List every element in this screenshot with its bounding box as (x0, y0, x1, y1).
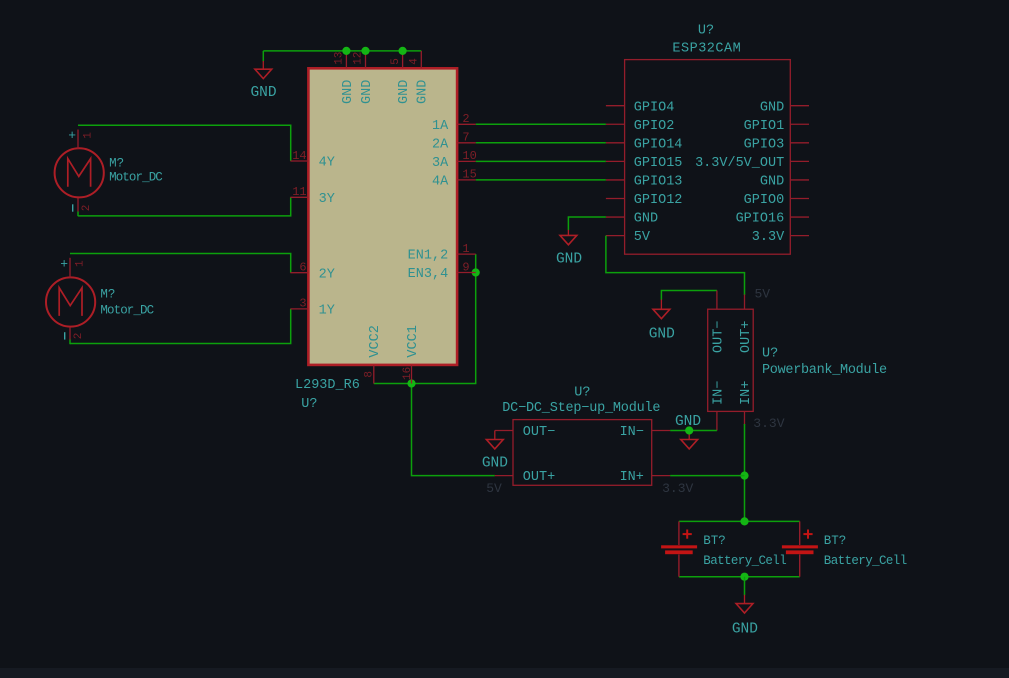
junction IN- / GND (685, 426, 693, 434)
svg-text:4A: 4A (432, 175, 449, 190)
pin 11 (3Y) stub (290, 196, 308, 198)
pin name - (M2) (64, 332, 66, 339)
wire motor M1 + to pin 4Y (78, 125, 291, 161)
pin 16 (VCC1) stub (411, 365, 413, 384)
svg-text:GPIO13: GPIO13 (634, 175, 683, 190)
module U? Powerbank_Module body (708, 309, 754, 411)
ESP32 left pin GPIO12 stub (606, 198, 625, 200)
motor M1 pin 2 (-) line (77, 198, 79, 212)
junction battery bottom (740, 573, 748, 581)
battery BT? (right) Battery_Cell (782, 521, 818, 576)
svg-text:+: + (60, 257, 68, 272)
svg-text:7: 7 (462, 131, 469, 145)
svg-text:IN+: IN+ (620, 470, 644, 485)
wire GND bus to L293D top pins (263, 50, 421, 52)
svg-text:GND: GND (360, 80, 375, 104)
svg-text:1A: 1A (432, 119, 449, 134)
ground (DC-DC OUT-) (486, 440, 503, 449)
wire L293D to ESP32 at y=179.9 (476, 179, 606, 181)
DC-DC pin OUT- stub (495, 430, 513, 432)
wire powerbank IN+ to battery bus (744, 424, 746, 521)
ground (powerbank OUT-) (653, 309, 670, 318)
svg-text:3.3V/5V_OUT: 3.3V/5V_OUT (695, 156, 784, 171)
wire motor M2 + to pin 2Y (70, 254, 291, 273)
pin 4 (GND) stub (420, 51, 422, 68)
svg-text:2: 2 (81, 205, 93, 212)
wire L293D to ESP32 at y=142.8 (476, 142, 606, 144)
wire to top-left ground (262, 51, 264, 62)
svg-text:BT?: BT? (703, 534, 726, 548)
svg-text:BT?: BT? (824, 534, 847, 548)
svg-text:EN3,4: EN3,4 (408, 267, 449, 282)
svg-text:5V: 5V (634, 230, 651, 245)
svg-text:U?: U? (762, 347, 778, 362)
junction battery top (740, 517, 748, 525)
svg-text:VCC1: VCC1 (406, 325, 421, 357)
svg-text:L293D_R6: L293D_R6 (295, 378, 360, 393)
DC-DC pin OUT+ stub (495, 475, 513, 477)
pin 13 (GND) stub (345, 51, 347, 68)
svg-text:14: 14 (292, 149, 306, 163)
svg-text:OUT−: OUT− (523, 425, 555, 440)
svg-text:EN1,2: EN1,2 (408, 249, 449, 264)
svg-text:5V: 5V (755, 286, 771, 301)
pin 15 (4A) stub (457, 179, 476, 181)
powerbank pin IN- stub (716, 412, 718, 431)
ESP32 right pin GND stub (790, 179, 809, 181)
junction on GND bus (342, 47, 350, 55)
wire battery bottom bus (679, 576, 800, 578)
pin 12 (GND) stub (365, 51, 367, 68)
wire battery bus to ground (744, 577, 746, 596)
svg-text:GPIO1: GPIO1 (744, 119, 785, 134)
svg-text:GND: GND (760, 175, 784, 190)
ESP32 right pin GPIO16 stub (790, 216, 809, 218)
svg-text:M?: M? (109, 156, 124, 170)
svg-text:OUT−: OUT− (712, 321, 727, 353)
svg-text:GPIO3: GPIO3 (744, 137, 785, 152)
wire powerbank OUT- to ground (661, 291, 717, 301)
svg-text:GND: GND (482, 456, 508, 472)
svg-text:GND: GND (760, 100, 784, 115)
ground pin stub (262, 61, 264, 69)
junction EN3,4 (472, 268, 480, 276)
wire ESP32 5V to powerbank OUT+ (606, 236, 745, 295)
svg-text:1: 1 (462, 242, 469, 256)
module U? DC-DC_Step-up_Module body (513, 420, 652, 486)
svg-text:GND: GND (556, 252, 582, 268)
pin 6 (2Y) stub (290, 272, 308, 274)
svg-text:GPIO0: GPIO0 (744, 193, 785, 208)
svg-text:4Y: 4Y (319, 156, 335, 171)
powerbank pin OUT- stub (716, 291, 718, 310)
DC-DC pin IN+ stub (652, 475, 671, 477)
svg-text:Powerbank_Module: Powerbank_Module (762, 363, 887, 378)
wire battery top bus (679, 520, 800, 522)
pin 8 (VCC2) stub (373, 365, 375, 384)
svg-text:GND: GND (634, 212, 658, 227)
svg-text:VCC2: VCC2 (368, 325, 383, 357)
junction IN+ / 3.3V (740, 472, 748, 480)
motor M2 pin 1 (+) line (69, 258, 71, 278)
svg-text:3A: 3A (432, 156, 449, 171)
svg-text:IN+: IN+ (739, 381, 754, 405)
svg-text:4: 4 (409, 58, 421, 65)
wire motor M2 - to pin 1Y (70, 309, 291, 344)
ESP32 left pin GPIO4 stub (606, 105, 625, 107)
svg-text:GND: GND (732, 622, 758, 638)
svg-text:1Y: 1Y (319, 304, 335, 319)
svg-text:U?: U? (301, 397, 317, 412)
svg-text:IN−: IN− (712, 381, 727, 405)
ground (IN- net) (681, 440, 698, 449)
svg-text:5V: 5V (486, 481, 502, 496)
ground pin stub (OUT-) (660, 300, 662, 310)
wire ESP32 GND pin to ground (568, 217, 606, 230)
svg-text:U?: U? (698, 24, 714, 39)
ESP32 right pin GPIO1 stub (790, 123, 809, 125)
svg-text:2: 2 (73, 333, 85, 340)
svg-text:OUT+: OUT+ (739, 321, 754, 353)
svg-text:Battery_Cell: Battery_Cell (703, 554, 786, 568)
svg-text:11: 11 (292, 185, 306, 199)
svg-text:GPIO2: GPIO2 (634, 119, 675, 134)
pin 5 (GND) stub (402, 51, 404, 68)
svg-text:+: + (68, 128, 76, 143)
svg-text:2: 2 (462, 112, 469, 126)
pin 9 (EN3,4) stub (457, 272, 476, 274)
pin 14 (4Y) stub (290, 160, 308, 162)
junction VCC1 (407, 379, 415, 387)
svg-text:GND: GND (649, 327, 675, 343)
svg-text:9: 9 (462, 260, 469, 274)
motor M2 pin 2 (-) line (69, 327, 71, 340)
svg-text:GPIO4: GPIO4 (634, 100, 675, 115)
ground pin stub (DC-DC OUT-) (494, 431, 496, 440)
ESP32 right pin GND stub (790, 105, 809, 107)
svg-text:GND: GND (416, 80, 431, 104)
svg-text:10: 10 (462, 149, 476, 163)
junction on GND bus (361, 47, 369, 55)
pin 3 (1Y) stub (290, 308, 308, 310)
wire DC-DC IN- to powerbank IN- (670, 430, 717, 432)
svg-text:Motor_DC: Motor_DC (100, 303, 153, 317)
ESP32 left pin GPIO14 stub (606, 142, 625, 144)
pin 7 (2A) stub (457, 142, 476, 144)
motor M2 Motor_DC (46, 277, 95, 326)
ground (battery) (736, 604, 753, 613)
ESP32 left pin 5V stub (606, 235, 625, 237)
svg-text:OUT+: OUT+ (523, 470, 555, 485)
ESP32 left pin GPIO15 stub (606, 160, 625, 162)
svg-text:GND: GND (675, 414, 701, 430)
svg-text:16: 16 (402, 367, 414, 380)
svg-text:GND: GND (397, 80, 412, 104)
svg-text:1: 1 (82, 132, 94, 139)
svg-text:15: 15 (462, 168, 476, 182)
svg-text:3Y: 3Y (319, 192, 335, 207)
pin name - (M1) (72, 204, 74, 211)
battery BT? (left) Battery_Cell (661, 521, 697, 576)
ESP32 right pin GPIO0 stub (790, 198, 809, 200)
svg-text:3.3V: 3.3V (662, 481, 693, 496)
ground pin stub (battery) (744, 595, 746, 604)
ground (ESP32) (560, 235, 577, 244)
ESP32 right pin GPIO3 stub (790, 142, 809, 144)
wire stub M2 - (69, 340, 71, 345)
pin 10 (3A) stub (457, 160, 476, 162)
wire DC-DC IN+ to 3.3V rail (670, 475, 744, 477)
svg-text:IN−: IN− (620, 425, 644, 440)
ESP32 right pin 3.3V/5V_OUT stub (790, 160, 809, 162)
motor M1 Motor_DC (55, 148, 104, 197)
ground pin stub (IN- net) (688, 431, 690, 440)
svg-text:GND: GND (341, 80, 356, 104)
wire EN1,2/EN3,4 to VCC rail (374, 254, 476, 383)
wire motor M1 - to pin 3Y (78, 197, 291, 216)
svg-text:GPIO14: GPIO14 (634, 137, 683, 152)
svg-text:Battery_Cell: Battery_Cell (824, 554, 907, 568)
svg-text:3.3V: 3.3V (752, 230, 785, 245)
svg-text:GPIO16: GPIO16 (736, 212, 785, 227)
wire VCC1 to DC-DC OUT+ (412, 384, 495, 476)
wire stub M1 - (77, 212, 79, 217)
svg-text:6: 6 (299, 261, 306, 275)
ESP32 left pin GND stub (606, 216, 625, 218)
ESP32 left pin GPIO13 stub (606, 179, 625, 181)
svg-text:DC−DC_Step−up_Module: DC−DC_Step−up_Module (502, 401, 660, 416)
powerbank pin OUT+ stub (744, 295, 746, 310)
svg-text:3.3V: 3.3V (753, 416, 784, 431)
ground pin stub (ESP32) (567, 230, 569, 236)
powerbank pin IN+ stub (744, 412, 746, 425)
svg-text:Motor_DC: Motor_DC (109, 170, 162, 184)
junction on GND bus (399, 47, 407, 55)
IC U? L293D_R6 body (308, 68, 457, 365)
wire L293D to ESP32 at y=124.3 (476, 123, 606, 125)
ESP32 left pin GPIO2 stub (606, 123, 625, 125)
ground (top left) (255, 69, 272, 78)
svg-text:5: 5 (390, 58, 402, 65)
ESP32 right pin 3.3V stub (790, 235, 809, 237)
svg-text:2Y: 2Y (319, 267, 335, 282)
DC-DC pin IN- stub (652, 430, 671, 432)
svg-text:GPIO12: GPIO12 (634, 193, 683, 208)
svg-text:ESP32CAM: ESP32CAM (672, 41, 741, 56)
svg-text:1: 1 (74, 260, 86, 267)
svg-text:M?: M? (100, 287, 115, 301)
wire L293D to ESP32 at y=161.4 (476, 160, 606, 162)
motor M1 pin 1 (+) line (77, 130, 79, 150)
svg-text:U?: U? (574, 386, 590, 401)
pin 2 (1A) stub (457, 123, 476, 125)
svg-text:GPIO15: GPIO15 (634, 156, 683, 171)
pin 1 (EN1,2) stub (457, 253, 476, 255)
module U? ESP32CAM body (625, 60, 791, 255)
svg-text:2A: 2A (432, 137, 449, 152)
svg-text:3: 3 (299, 297, 306, 311)
svg-text:8: 8 (364, 371, 376, 378)
svg-text:GND: GND (250, 85, 276, 101)
